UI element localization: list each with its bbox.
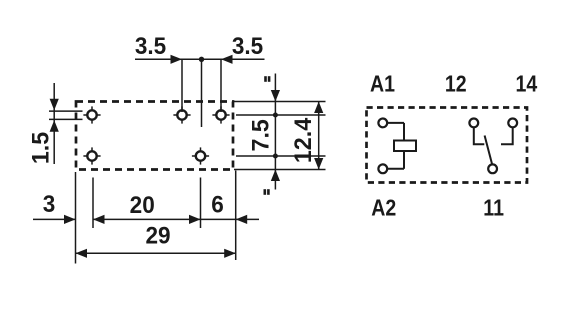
svg-text:12: 12 (445, 71, 467, 97)
svg-text:3.5: 3.5 (135, 32, 166, 59)
svg-text:3.5: 3.5 (232, 32, 263, 59)
svg-text:14: 14 (516, 71, 538, 97)
svg-text:A1: A1 (370, 71, 395, 97)
svg-text:3: 3 (43, 190, 56, 217)
svg-text:11: 11 (483, 195, 504, 221)
svg-text:7.5: 7.5 (247, 119, 275, 151)
svg-text:12.4: 12.4 (289, 117, 317, 163)
svg-text:A2: A2 (371, 195, 396, 221)
svg-text:1.5: 1.5 (27, 132, 55, 164)
svg-text:20: 20 (130, 191, 155, 218)
svg-text:6: 6 (211, 191, 224, 218)
svg-text:29: 29 (145, 222, 170, 249)
